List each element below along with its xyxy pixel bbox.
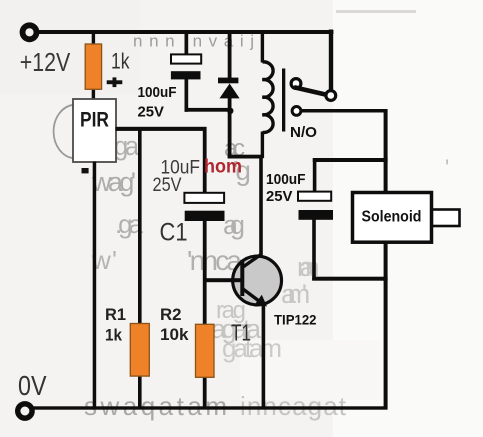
label + polarity [107,80,123,84]
svg-text:T1: T1 [231,320,251,346]
wire resistor 1k stems [92,32,95,46]
svg-text:am': am' [281,279,310,309]
PIR sensor box [73,99,116,162]
svg-text:Solenoid: Solenoid [362,209,422,226]
relay switch N/O contact [292,107,301,116]
relay core bar [282,69,285,132]
svg-text:25V: 25V [266,189,293,205]
capacitor 100uF top-left stem [185,32,189,56]
resistor R2 [196,324,215,377]
transistor T1 emitter lead [243,289,261,303]
svg-text:inncagat: inncagat [240,391,347,421]
wire collector [259,155,263,256]
capacitor 100uF bottom plate [171,71,201,79]
terminal +12V [23,25,37,39]
svg-text:TIP122: TIP122 [274,313,317,328]
wire solenoid bottom to rail [384,241,388,410]
wire 100uF solenoid branch top [313,158,388,162]
wire 100uF solenoid branch bottom [312,220,316,281]
svg-text:hom: hom [204,156,242,178]
capacitor C1 bottom plate [185,211,225,221]
solenoid plunger tab [432,210,460,227]
svg-text:0V: 0V [18,370,47,401]
wire PIR bottom to 0V rail [93,162,97,410]
relay switch armature [294,87,327,95]
svg-text:N/O: N/O [290,124,317,141]
wire base [204,278,242,282]
relay switch moving contact [326,91,336,101]
wire emitter to rail [262,303,266,409]
relay coil [262,62,273,133]
wire C1 R2 column [203,127,207,194]
transistor T1 collector lead [243,255,261,267]
PIR dome [54,105,74,158]
junction dot [227,108,233,114]
svg-text:100uF: 100uF [266,172,306,188]
relay switch pole contact [291,79,301,89]
wire relay coil bottom [228,155,264,159]
transistor T1 body [233,256,282,305]
svg-text:wag': wag' [91,167,136,197]
svg-text:R2: R2 [160,305,182,324]
capacitor 100uF solenoid top plate [298,192,331,201]
resistor R1 [130,324,149,377]
capacitor 100uF solenoid bottom plate [299,210,334,220]
svg-text:1k: 1k [105,326,122,345]
wire N/O to solenoid [301,109,388,113]
wire top rail +12V [37,30,333,34]
svg-text:ga: ga [114,133,140,161]
wire 100uF bottom [185,79,189,112]
label - polarity [82,168,89,173]
wire switch feed [329,30,333,90]
capacitor 100uF top plate [171,54,201,63]
svg-text:': ' [445,155,449,180]
transistor T1 emitter arrow [255,295,267,307]
svg-text:R1: R1 [105,305,126,324]
resistor 1k [85,44,101,89]
svg-text:+12V: +12V [20,47,71,77]
svg-text:25V: 25V [138,104,165,120]
diode D1 cathode bar [218,78,238,84]
svg-text:PIR: PIR [80,109,109,132]
wire R1 branch [138,127,142,325]
svg-text:10k: 10k [160,325,189,344]
capacitor C1 top plate [184,193,224,203]
terminal 0V [18,404,32,418]
svg-text:25V: 25V [153,174,182,196]
svg-text:ag: ag [223,210,245,240]
wire diode branch [228,32,232,79]
svg-text:1k: 1k [111,49,130,74]
wire PIR output [116,127,207,131]
wire 0V rail [33,406,387,409]
svg-text:C1: C1 [160,219,188,247]
solenoid box [353,193,432,243]
svg-text:100uF: 100uF [138,85,177,101]
diode D1 [220,84,240,99]
transistor T1 base bar [240,260,244,296]
wire relay coil stems [261,32,264,63]
